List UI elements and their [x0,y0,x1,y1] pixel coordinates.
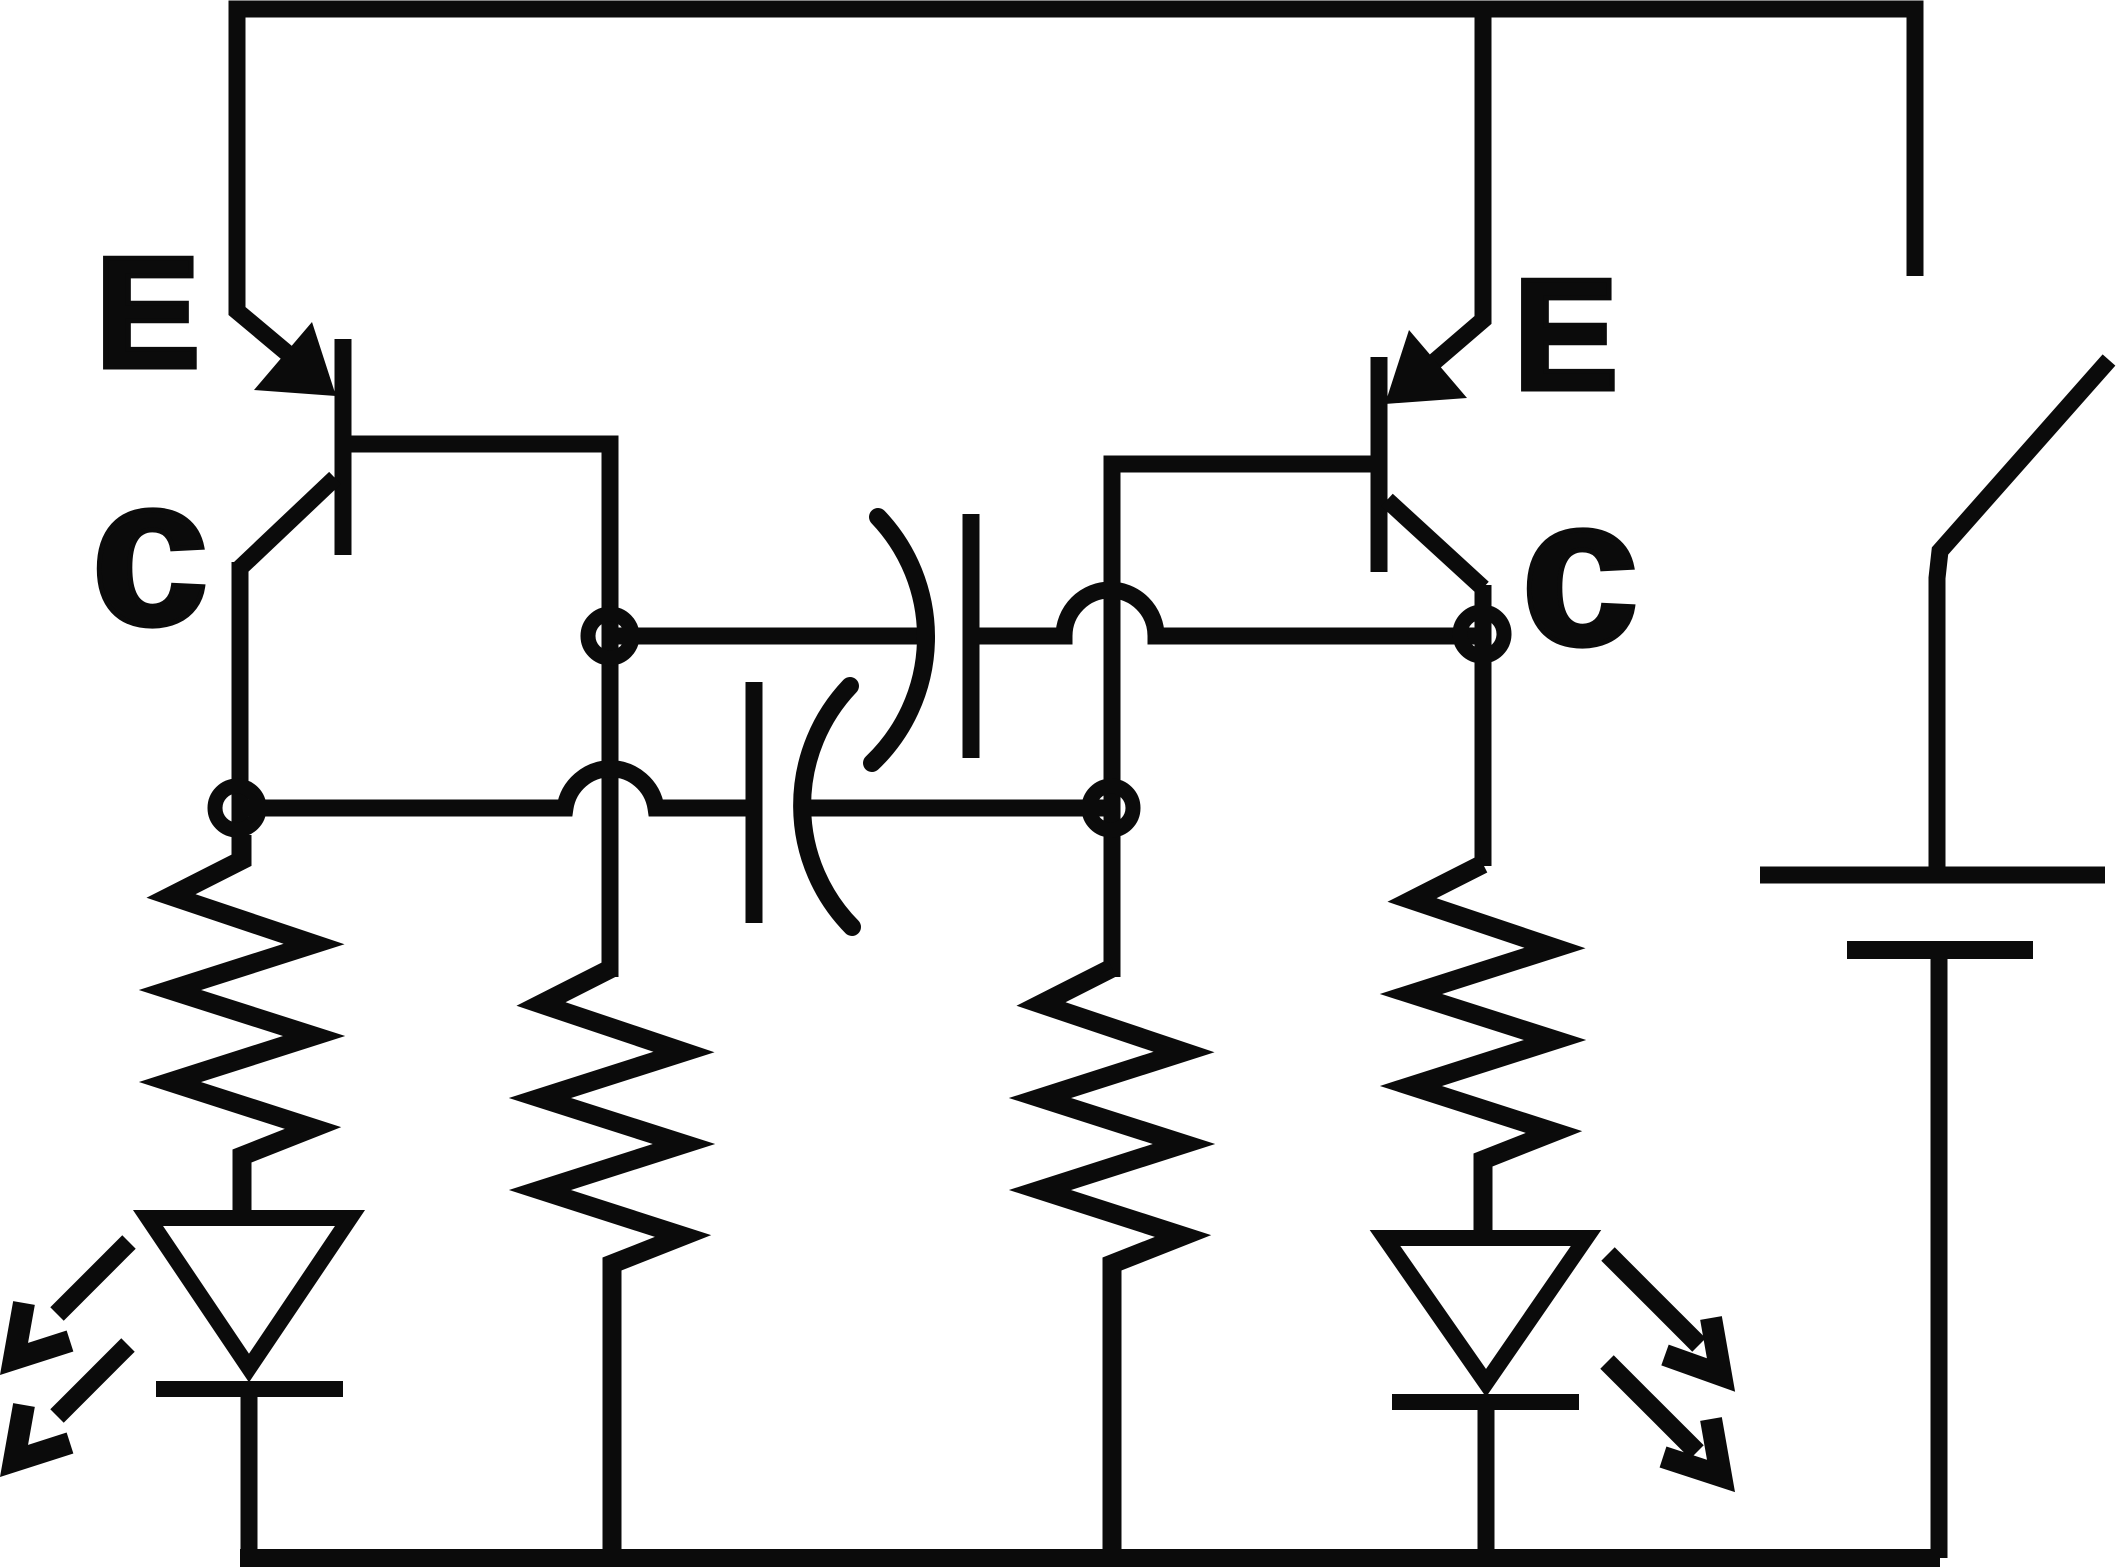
wire battery to bottom rail [1931,955,1948,1558]
LED D2 [1385,1238,1586,1553]
arrow D2 ray 1 [1608,1254,1721,1375]
LED D1 [148,1218,350,1553]
capacitor C2 straight plate [746,682,763,923]
capacitor C1 curved plate [872,517,926,763]
node N3 [1089,786,1133,830]
battery BT1 positive plate [1760,867,2105,884]
wire Q2 emitter drop [1412,9,1483,381]
resistor R3 [1040,968,1184,1553]
svg-text:E: E [95,225,200,401]
wire Q1 collector vertical [232,562,249,862]
wire lower link left segment with hop [237,769,761,808]
wire lower link right segment [797,800,1111,817]
wire Q2 base to R3 column [1112,464,1371,977]
arrow D1 ray 2 [14,1345,128,1461]
svg-text:c: c [1521,452,1639,689]
resistor R1 [170,835,314,1213]
wire upper link right segment with hop [971,590,1482,636]
battery BT1 negative plate [1847,941,2033,959]
node N2 [215,786,259,830]
svg-text:E: E [1513,247,1618,423]
capacitor C2 curved plate [802,686,852,927]
resistor R2 [540,968,684,1553]
transistor Q1 [240,322,343,568]
arrow D2 ray 2 [1607,1362,1721,1476]
wire upper link left segment [610,628,926,645]
arrow D1 ray 1 [14,1242,129,1359]
switch S1 [1937,360,2109,880]
capacitor C1 straight plate [963,514,980,758]
resistor R4 [1411,864,1555,1235]
wire Q1 base to R2 column [351,444,610,977]
node N1 [588,614,632,658]
transistor Q2 [1379,330,1483,588]
wire Q2 collector vertical [1475,585,1492,866]
node N4 [1460,612,1504,656]
wire top rail [237,9,1915,368]
svg-text:c: c [91,432,209,669]
wire bottom rail [240,1549,1940,1567]
